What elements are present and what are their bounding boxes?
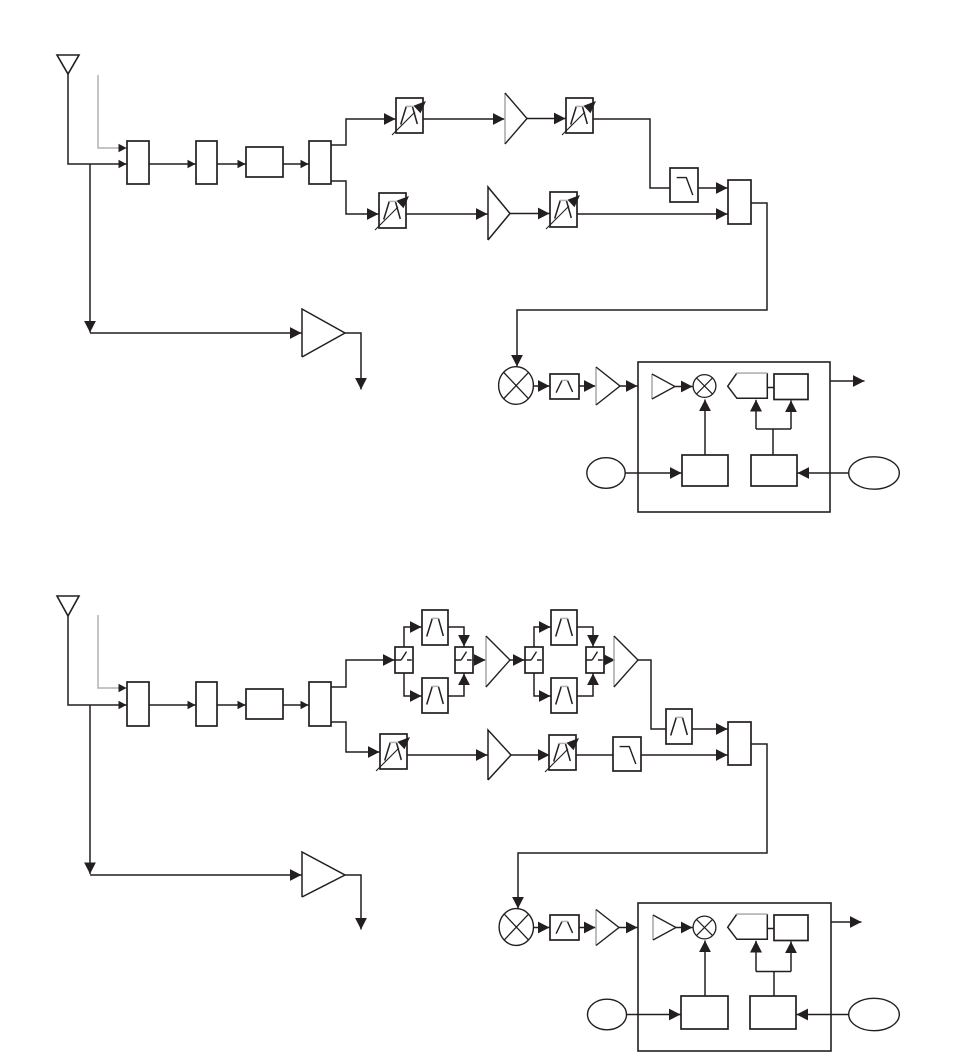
- wire: A3 into demodulator block U6: [620, 385, 638, 387]
- amplifier A14: [596, 910, 619, 946]
- switch S2: [455, 647, 473, 673]
- wire: FB4 up into switch S4: [577, 674, 593, 697]
- wire: U5 output feedback down to mixer M1: [517, 203, 767, 367]
- wire: gray control line into RF switch upper input: [98, 615, 127, 688]
- switch S4: [586, 647, 604, 673]
- oscillator box B11 (inside U16): [681, 996, 728, 1029]
- combiner box U15: [728, 722, 751, 765]
- demodulator block U6: [638, 362, 830, 512]
- band-pass filter FB2: [422, 678, 448, 713]
- wire: up arrow into register box: [790, 942, 792, 972]
- wire: F13 to combiner U15 lower input: [641, 754, 728, 756]
- switch S1: [395, 647, 413, 673]
- wire: S1 down to band-pass filter FB2: [404, 673, 422, 696]
- amplifier A3: [596, 367, 620, 405]
- wire: U12 to U13: [217, 704, 246, 706]
- tunable band-pass filter F12: [545, 735, 579, 772]
- divider box B12 (inside U16): [750, 996, 796, 1029]
- wire: up arrow into pentagon: [755, 400, 757, 429]
- wire: M11 to band-pass filter F14: [534, 927, 550, 929]
- register box U8 (inside U6): [774, 374, 808, 400]
- amplifier A12: [614, 636, 638, 687]
- band-pass filter F14: [550, 915, 579, 940]
- wire: F11 to amplifier A13: [407, 754, 488, 756]
- wire: A2 to tunable band-pass filter F5: [510, 213, 550, 215]
- wire: FB5 to combiner U15 upper input: [692, 728, 728, 730]
- wire: antenna down to main line into RF switch: [68, 616, 127, 705]
- register box U18 (inside U16): [774, 915, 808, 941]
- wire: pentagon to register box: [767, 928, 774, 930]
- RF switch box U11: [127, 682, 149, 726]
- wire: E2 to box B2: [798, 472, 849, 474]
- wire: A5 output down arrow: [345, 333, 361, 390]
- wire: E11 to box B11: [627, 1014, 681, 1016]
- wire: A1 to tunable band-pass filter F2: [527, 118, 566, 120]
- demodulator block U16: [638, 903, 831, 1051]
- tunable band-pass filter F5: [546, 192, 580, 229]
- wire: E12 to box B12: [797, 1014, 849, 1016]
- amplifier A11: [486, 636, 510, 687]
- band-pass filter FB4: [551, 678, 577, 713]
- wire: U6 output: [830, 380, 865, 382]
- tunable band-pass filter F11: [376, 734, 410, 771]
- wire: U11 to U12: [149, 704, 196, 706]
- wire: M1 to band-pass filter F6: [534, 385, 550, 387]
- amplifier A15 (inside U16): [653, 915, 676, 940]
- wire: S3 down to band-pass filter FB4: [534, 673, 551, 696]
- wire: up arrow into register box: [790, 401, 792, 430]
- tunable band-pass filter F4: [375, 193, 409, 230]
- LNA box U13: [246, 689, 283, 719]
- wire: E1 to box B1: [626, 472, 682, 474]
- wire: F14 to amplifier A14: [579, 927, 596, 929]
- TX amplifier A16: [302, 852, 345, 897]
- band-pass filter FB5: [666, 709, 692, 744]
- divider box B2 (inside U6): [751, 455, 797, 486]
- wire: A14 into demodulator block U16: [619, 927, 638, 929]
- mixer M1: [499, 367, 534, 405]
- wire: S4 to amplifier A12: [604, 659, 615, 661]
- low-pass filter F13: [613, 737, 641, 771]
- wire: F12 to low-pass filter F13: [576, 754, 613, 756]
- wire: FB3 down into switch S4: [577, 627, 593, 647]
- wire: A4 to mixer M2: [675, 386, 693, 388]
- wire: up arrow into pentagon: [755, 941, 757, 972]
- reference oscillator ellipse E11: [588, 999, 627, 1030]
- band-pass filter FB1: [422, 610, 448, 645]
- wire: F1 to amplifier A1: [423, 118, 505, 120]
- wire: bottom row to TX amplifier: [90, 332, 302, 334]
- wire: gray control line into RF switch upper input: [98, 75, 127, 148]
- wire: U3 to splitter U4: [283, 163, 309, 165]
- amplifier A1: [505, 93, 527, 144]
- wire: A16 output down arrow: [345, 875, 361, 930]
- wire: oscillator box B1 up into mixer M2: [704, 400, 706, 456]
- wire: A15 to mixer M12: [676, 927, 693, 929]
- tunable band-pass filter F2: [562, 98, 596, 135]
- reference oscillator ellipse E1: [587, 458, 625, 489]
- wire: F6 to amplifier A3: [579, 385, 596, 387]
- antenna ANT2: [57, 596, 79, 616]
- wire: junction branch down to TX amplifier row: [89, 164, 91, 333]
- wire: junction branch down to TX amplifier row: [89, 705, 91, 874]
- mixer M2 (inside U6): [693, 375, 716, 398]
- filter box U2: [196, 141, 217, 184]
- wire: U4 lower output to tunable band-pass filter F4: [331, 181, 379, 214]
- wire: S1 up to band-pass filter FB1: [404, 627, 422, 647]
- wire: U16 output: [831, 921, 862, 923]
- limiter/discriminator pentagon U17 (inside U16): [728, 914, 768, 939]
- wire: F3 to combiner U5 upper input: [698, 187, 728, 189]
- wire: F4 to amplifier A2: [406, 213, 488, 215]
- wire: U1 to U2: [149, 163, 196, 165]
- wire: U2 to U3: [217, 163, 246, 165]
- band-pass filter F6: [550, 374, 579, 399]
- splitter box U14: [309, 682, 331, 726]
- RF switch box U1: [127, 141, 149, 184]
- reference oscillator ellipse E2: [849, 457, 900, 489]
- wire: A12 down to band-pass filter FB5: [638, 660, 666, 729]
- wire: F2 to low-pass filter F3: [593, 119, 670, 188]
- wire: U4 upper output to tunable band-pass filter F1: [331, 119, 396, 145]
- wire: U15 output feedback down to mixer M11: [518, 744, 767, 909]
- antenna ANT1: [57, 55, 79, 74]
- wire: pentagon to register box: [767, 387, 774, 389]
- wire: FB2 up into switch S2: [448, 674, 464, 697]
- wire: S3 up to band-pass filter FB3: [534, 627, 551, 647]
- amplifier A13: [488, 730, 511, 780]
- wire: bottom row to TX amplifier: [90, 874, 302, 876]
- limiter/discriminator pentagon U7 (inside U6): [728, 373, 768, 398]
- splitter box U4: [309, 141, 331, 184]
- wire: U14 lower output to tunable band-pass filter F11: [331, 722, 380, 752]
- amplifier A2: [488, 187, 510, 240]
- wire: T-bar from box B2 up to pentagon and register: [756, 429, 791, 455]
- wire: U13 to splitter U14: [283, 704, 309, 706]
- reference oscillator ellipse E12: [849, 998, 900, 1030]
- mixer M11: [499, 909, 533, 946]
- low-pass filter F3: [670, 168, 698, 202]
- combiner box U5: [728, 180, 751, 224]
- wire: S2 to amplifier A11: [473, 659, 486, 661]
- wire: F5 to combiner U5 lower input: [577, 213, 728, 215]
- wire: A13 to tunable band-pass filter F12: [511, 754, 550, 756]
- wire: A11 to switch S3: [510, 659, 525, 661]
- amplifier A4 (inside U6): [652, 374, 675, 399]
- wire: U14 upper output to switch S1: [331, 660, 395, 687]
- LNA box U3: [246, 147, 283, 177]
- wire: FB1 down into switch S2: [448, 627, 464, 647]
- band-pass filter FB3: [551, 610, 577, 645]
- TX amplifier A5: [302, 309, 345, 357]
- wire: oscillator box B11 up into mixer M12: [704, 941, 706, 997]
- wire: antenna down to main line into RF switch: [68, 74, 127, 164]
- filter box U12: [196, 682, 217, 726]
- tunable band-pass filter F1: [392, 98, 426, 135]
- mixer M12 (inside U16): [693, 916, 716, 939]
- switch S3: [525, 647, 543, 673]
- wire: T-bar from box B12 up to pentagon and register: [756, 972, 791, 997]
- oscillator box B1 (inside U6): [682, 455, 728, 486]
